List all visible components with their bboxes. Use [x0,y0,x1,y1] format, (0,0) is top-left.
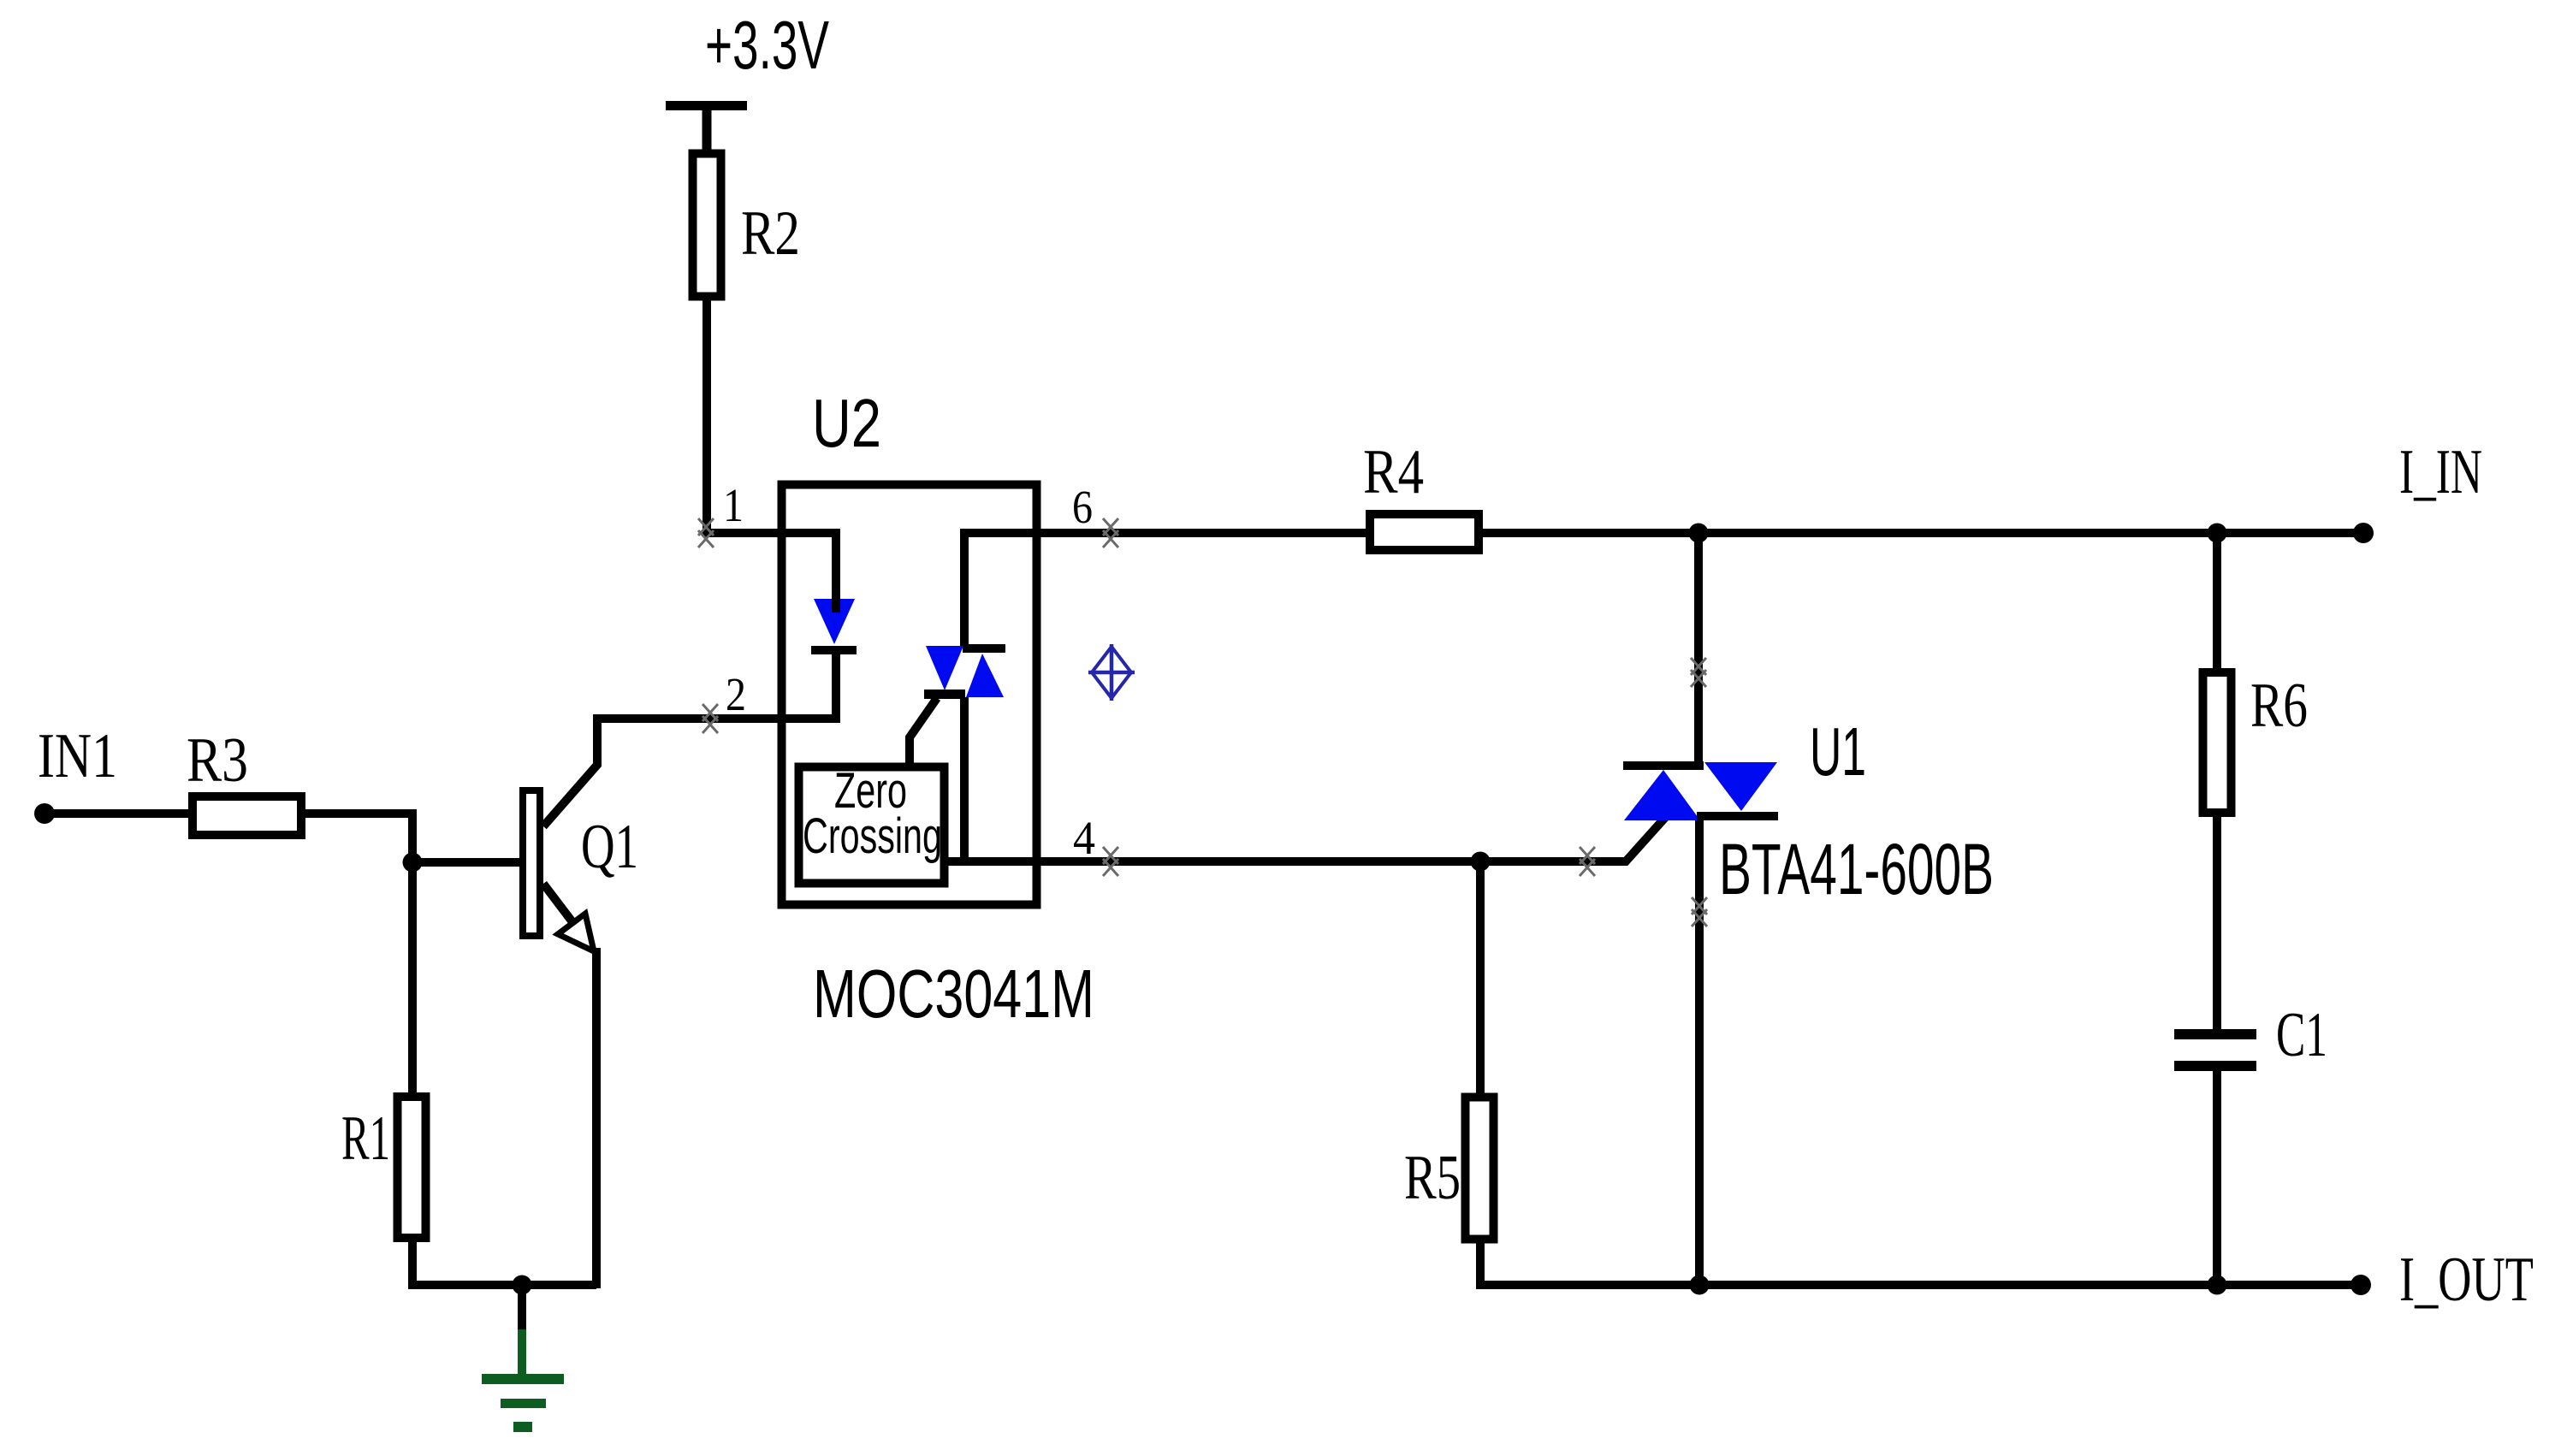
svg-text:U1: U1 [1810,713,1866,790]
power +3.3V symbol [666,101,747,151]
svg-text:MOC3041M: MOC3041M [813,956,1094,1032]
svg-text:+3.3V: +3.3V [705,7,829,83]
optocoupler U2 box [782,485,1037,905]
wire base node to Q1 base [412,858,521,867]
wire Zero Crossing box to pin 4 [945,857,964,866]
resistor R4 [1370,514,1479,550]
wire phototriac gate to Zero Crossing box [910,698,937,765]
wire R5 to I_OUT rail [1480,1239,2361,1285]
no-connect mark pin 2 [702,704,718,733]
junction R4 node [1689,524,1709,543]
wire R1 to ground rail [412,1240,596,1285]
junction R6 node [2208,524,2227,543]
wire R4 to I_IN [1481,529,2363,537]
node IN1 terminal [34,803,55,824]
wire phototriac to U2 pin 4 [964,697,1040,861]
no-connect mark pin 1 [698,518,714,547]
wire R3 to base node [301,814,412,1097]
junction base node [403,853,423,873]
svg-text:Q1: Q1 [581,812,638,882]
wire U2 pin 6 to R4 [1040,529,1367,537]
diode LED in U2 [811,599,857,654]
svg-text:R4: R4 [1363,437,1424,507]
resistor R3 [193,796,301,835]
svg-text:Crossing: Crossing [803,808,942,864]
svg-text:C1: C1 [2276,1000,2327,1070]
resistor R5 [1466,1098,1494,1240]
label Zero Crossing [803,763,942,864]
svg-text:R6: R6 [2250,671,2308,741]
resistor R1 [398,1097,426,1238]
no-connect mark U1 top [1691,658,1706,687]
wire R5 node down [1476,861,1485,1097]
wire I_IN node to R6 [2213,533,2221,672]
junction C1 to rail [2208,1275,2227,1295]
wire I_IN node to U1 [1694,533,1703,763]
Zero Crossing box [799,767,945,884]
no-connect mark pin 6 [1103,518,1118,547]
wire U1 to I_OUT rail [1695,820,1704,1285]
svg-text:R2: R2 [741,198,800,269]
no-connect mark U1 gate [1580,847,1595,876]
wire R6 to C1 [2213,813,2221,1031]
wire IN1 to R3 [44,809,194,818]
svg-text:I_IN: I_IN [2399,437,2482,507]
svg-text:2: 2 [726,668,746,720]
resistor R2 [693,154,721,297]
node I_OUT terminal [2350,1275,2371,1295]
junction R5 node [1471,852,1491,872]
svg-text:I_OUT: I_OUT [2399,1245,2534,1315]
wire C1 to I_OUT rail [2213,1069,2221,1285]
svg-text:R1: R1 [341,1104,390,1174]
transistor Q1 [523,719,778,1288]
svg-text:R5: R5 [1404,1143,1461,1213]
capacitor C1 [2174,1029,2256,1071]
svg-text:6: 6 [1072,481,1093,533]
wire LED to U2 pin 2 [782,654,836,719]
svg-text:U2: U2 [812,385,881,461]
no-connect mark U1 bottom [1692,897,1707,926]
triac U1 [1623,761,1778,820]
svg-text:4: 4 [1073,812,1095,864]
wire U2 internal pin 6 to phototriac [964,533,1040,646]
wire R2 to U2 pin 1 [707,300,778,533]
svg-text:R3: R3 [187,725,248,796]
svg-text:BTA41-600B: BTA41-600B [1719,829,1994,909]
wire U2 internal pin1 to LED [782,533,836,601]
blue crosshair mark [1088,644,1135,701]
ground [482,1285,564,1432]
resistor R6 [2203,672,2232,813]
no-connect mark pin 4 [1103,847,1118,876]
phototriac in U2 [924,644,1005,699]
junction U1 to rail [1690,1275,1710,1295]
junction ground node [513,1275,532,1295]
svg-text:IN1: IN1 [38,721,117,791]
svg-text:1: 1 [723,479,744,531]
node I_IN terminal [2353,523,2374,543]
wire U2 pin 4 to U1 gate [1040,812,1670,861]
